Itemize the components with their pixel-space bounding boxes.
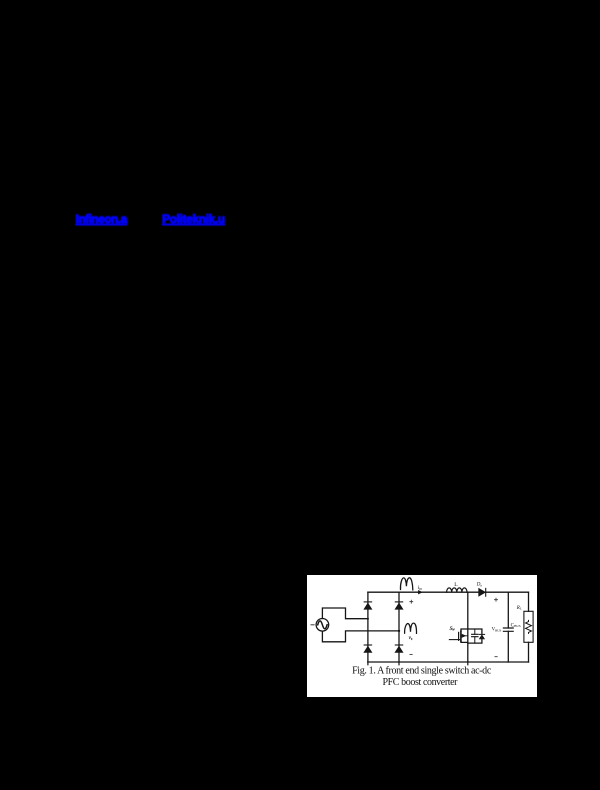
- mosfet Sw: [449, 629, 467, 642]
- wire switch branch from L/Db node: [467, 592, 469, 629]
- figure: PFC boost converter schematic: [307, 575, 537, 697]
- wire bridge left leg: [367, 592, 369, 662]
- wire top rail to Cbus branch: [507, 592, 509, 628]
- wire right rail lower: [528, 642, 530, 662]
- resistor RL zigzag: [526, 620, 532, 633]
- body diode of Sw: [479, 634, 484, 639]
- wire mosfet parallel loop: [468, 629, 482, 643]
- wire bridge right leg: [398, 592, 400, 662]
- diode D2 bridge upper-right: [395, 602, 403, 609]
- ac source Vin: [311, 619, 329, 632]
- wire source bottom loop: [322, 631, 399, 642]
- resistor RL box: [524, 611, 533, 642]
- diode D1 bridge upper-left: [364, 602, 372, 609]
- node junction on right leg: [398, 630, 400, 632]
- arrow iin on wire: [418, 591, 422, 594]
- svg-text:VBUS: VBUS: [492, 628, 502, 633]
- svg-text:CBUS: CBUS: [511, 622, 521, 628]
- label plus bus: [495, 598, 498, 601]
- capacitor Coss: [472, 629, 478, 643]
- svg-text:RL: RL: [516, 606, 522, 611]
- waveform symbol vs: [405, 623, 417, 633]
- hyperlink 1: [76, 213, 127, 226]
- label plus vs: [410, 600, 413, 603]
- wire bottom rail: [368, 661, 529, 663]
- diode D3 bridge lower-left: [364, 645, 372, 652]
- label minus vs: [410, 653, 412, 655]
- wire leg overshoots below rail: [368, 662, 468, 665]
- svg-text:PFC boost converter: PFC boost converter: [382, 677, 458, 688]
- wire top rail: [368, 591, 529, 593]
- wire source top loop: [322, 608, 368, 619]
- svg-text:Db: Db: [476, 583, 483, 588]
- node junction on left leg: [367, 618, 369, 620]
- svg-text:L: L: [454, 582, 458, 588]
- svg-text:vs: vs: [409, 635, 413, 641]
- svg-text:Fig. 1. A front end single swi: Fig. 1. A front end single switch ac-dc: [352, 665, 492, 676]
- diode D4 bridge lower-right: [395, 645, 403, 652]
- svg-text:Sw: Sw: [450, 626, 456, 632]
- diode Db: [479, 588, 486, 596]
- hyperlink 2: [162, 212, 225, 226]
- waveform symbol iin: [400, 578, 412, 590]
- wire switch source to bottom rail: [467, 643, 469, 662]
- label minus bus: [495, 656, 497, 658]
- capacitor Cbus: [503, 628, 513, 662]
- inductor L: [447, 588, 467, 592]
- wire right rail upper: [528, 592, 530, 611]
